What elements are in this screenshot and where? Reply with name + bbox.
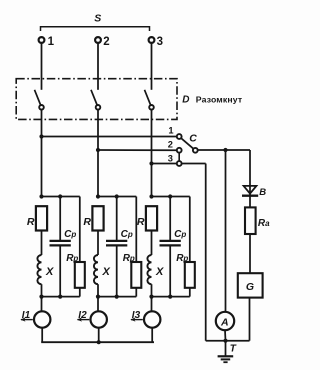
svg-text:3: 3 xyxy=(157,36,163,48)
inductor X phase 2 xyxy=(94,255,98,284)
wire source I2 to neutral bus xyxy=(98,328,100,343)
selector C contact 1 xyxy=(177,134,182,139)
svg-text:3: 3 xyxy=(168,153,173,163)
wire to source I3 xyxy=(151,297,153,312)
svg-text:T: T xyxy=(230,343,237,354)
svg-text:1: 1 xyxy=(168,126,173,136)
svg-text:Ra: Ra xyxy=(258,218,270,229)
wire junction down to ammeter A xyxy=(225,150,227,312)
terminal 1 xyxy=(39,37,45,43)
wire R to X phase 1 xyxy=(41,231,43,256)
svg-text:2: 2 xyxy=(168,140,173,150)
wire to source I2 xyxy=(97,297,99,312)
capacitor Cp phase 3 xyxy=(160,240,181,242)
wire to resistor Rp phase 1 xyxy=(79,197,81,263)
svg-text:R: R xyxy=(137,216,145,228)
svg-text:1: 1 xyxy=(48,36,55,48)
switch D phase 1 blade xyxy=(35,90,41,106)
wire to earth xyxy=(225,341,227,356)
capacitor Cp phase 1 xyxy=(50,240,71,242)
terminal 3 xyxy=(149,37,155,43)
selector C contact 2 xyxy=(177,148,182,153)
wire source I3 to neutral bus xyxy=(151,328,153,343)
node: top of load group phase 2 xyxy=(98,196,136,198)
wire line 1 to selector C xyxy=(42,136,177,138)
svg-text:2: 2 xyxy=(103,36,109,48)
diode B xyxy=(244,186,257,194)
selector C pivot contact xyxy=(193,148,198,153)
resistor R phase 3 xyxy=(146,206,157,230)
wire Cp to bottom node phase 3 xyxy=(169,246,171,296)
wire phase 3 switch to load group xyxy=(151,110,153,197)
svg-text:Cp: Cp xyxy=(64,229,76,240)
wire phase 3 terminal to switch xyxy=(151,43,153,90)
svg-text:Cp: Cp xyxy=(121,229,133,240)
wire to capacitor Cp phase 1 xyxy=(59,197,61,241)
svg-text:Разомкнут: Разомкнут xyxy=(196,94,243,104)
wire R to X phase 2 xyxy=(97,231,99,256)
svg-text:X: X xyxy=(45,266,54,278)
wire to capacitor Cp phase 2 xyxy=(116,197,118,241)
switch D phase 2 blade xyxy=(91,90,97,106)
wire Cp to bottom node phase 2 xyxy=(116,246,118,296)
node: phase 1 tap junction xyxy=(39,134,43,138)
wire X to bottom node phase 2 xyxy=(97,284,99,296)
wire selector C output xyxy=(198,149,250,151)
node: bottom of load group phase 1 xyxy=(42,296,80,298)
switch D phase 2 hinge contact xyxy=(96,105,101,110)
node: top of load group phase 3 xyxy=(152,196,190,198)
switch D phase 3 hinge contact xyxy=(149,105,154,110)
node: top of load group phase 1 xyxy=(42,196,80,198)
node: bottom of load group phase 3 xyxy=(152,296,190,298)
capacitor Cp phase 2 xyxy=(106,240,127,242)
resistor R phase 1 xyxy=(36,206,47,230)
wire source I1 to neutral bus xyxy=(41,328,43,343)
svg-text:B: B xyxy=(259,187,266,198)
svg-text:Cp: Cp xyxy=(174,229,186,240)
resistor R phase 2 xyxy=(92,206,103,230)
node: bottom of load group phase 2 xyxy=(98,296,136,298)
wire phase 1 terminal to switch xyxy=(41,43,43,90)
wire line 3 to selector C xyxy=(152,163,206,165)
wire R to X phase 3 xyxy=(151,231,153,256)
switch D phase 1 hinge contact xyxy=(39,105,44,110)
current source I3 xyxy=(144,311,160,327)
current source I2 xyxy=(91,311,107,327)
wire to diode B xyxy=(249,150,251,196)
wire to source I1 xyxy=(41,297,43,312)
svg-text:Rp: Rp xyxy=(66,253,78,264)
svg-text:S: S xyxy=(94,12,101,24)
ground symbol T xyxy=(218,355,234,357)
wire Ra to generator G xyxy=(249,234,251,273)
wire line 2 to selector C xyxy=(98,149,177,151)
wire to ground node (left) xyxy=(206,340,226,342)
ammeter A xyxy=(216,312,234,330)
resistor Ra xyxy=(245,207,256,234)
wire line3 branch down to ground node xyxy=(205,164,207,341)
selector C contact 3 xyxy=(177,161,182,166)
terminal 2 xyxy=(95,37,101,43)
node T (ground node) xyxy=(223,339,227,343)
svg-text:C: C xyxy=(189,132,197,144)
resistor Rp phase 2 xyxy=(131,262,141,288)
node: neutral bus junction xyxy=(97,340,101,344)
switch D phase 3 blade xyxy=(145,90,151,106)
wire phase 2 terminal to switch xyxy=(97,43,99,90)
wire X to bottom node phase 3 xyxy=(151,284,153,296)
svg-text:X: X xyxy=(102,266,111,278)
svg-text:X: X xyxy=(155,266,164,278)
wire phase 1 switch to load group xyxy=(41,110,43,197)
wire ammeter to ground node xyxy=(224,330,227,341)
svg-text:D: D xyxy=(182,94,189,105)
current source I1 xyxy=(34,311,50,327)
node: ammeter branch junction xyxy=(223,148,227,152)
wire phase 2 switch to load group xyxy=(97,110,99,197)
svg-text:Rp: Rp xyxy=(123,253,135,264)
wire G down to ground node xyxy=(249,298,251,341)
inductor X phase 3 xyxy=(147,255,151,284)
wire Rp to bottom node phase 2 xyxy=(135,288,137,297)
svg-text:Rp: Rp xyxy=(176,253,188,264)
svg-text:A: A xyxy=(220,316,229,328)
svg-text:G: G xyxy=(246,281,254,293)
wire to resistor Rp phase 3 xyxy=(189,197,191,263)
node: phase 2 tap junction xyxy=(96,148,100,152)
svg-text:R: R xyxy=(83,216,91,228)
resistor Rp phase 1 xyxy=(75,262,85,288)
wire Rp to bottom node phase 3 xyxy=(189,288,191,297)
node: phase 3 tap junction xyxy=(149,161,153,165)
wire to capacitor Cp phase 3 xyxy=(169,197,171,241)
resistor Rp phase 3 xyxy=(185,262,195,288)
node S (supply bracket) xyxy=(41,27,150,31)
svg-text:R: R xyxy=(27,216,35,228)
wire X to bottom node phase 1 xyxy=(41,284,43,296)
generator box G xyxy=(238,273,263,297)
switch box D (dash-dot outline) xyxy=(16,79,177,120)
inductor X phase 1 xyxy=(37,255,41,284)
wire to ground node (right) xyxy=(226,340,250,342)
wire link contacts 2-3 xyxy=(178,153,180,162)
wire to resistor Rp phase 2 xyxy=(135,197,137,263)
selector C blade xyxy=(181,138,193,149)
wire Cp to bottom node phase 1 xyxy=(59,246,61,296)
wire neutral bus xyxy=(41,341,154,343)
wire diode to resistor Ra xyxy=(249,197,251,208)
wire Rp to bottom node phase 1 xyxy=(79,288,81,297)
